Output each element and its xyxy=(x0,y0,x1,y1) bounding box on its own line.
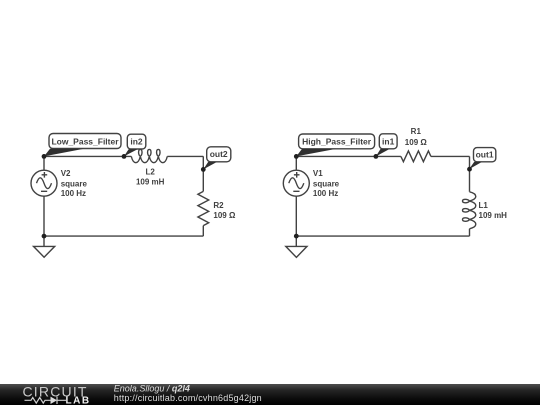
svg-text:V1: V1 xyxy=(313,169,323,178)
svg-text:Low_Pass_Filter: Low_Pass_Filter xyxy=(51,136,119,146)
svg-text:L1: L1 xyxy=(479,201,489,210)
svg-text:R1: R1 xyxy=(411,127,422,136)
svg-text:in1: in1 xyxy=(382,137,395,147)
svg-text:L2: L2 xyxy=(146,168,156,177)
svg-text:square: square xyxy=(61,179,88,188)
svg-text:LAB: LAB xyxy=(66,395,91,405)
svg-text:100 Hz: 100 Hz xyxy=(313,189,338,198)
svg-text:109 Ω: 109 Ω xyxy=(213,211,236,220)
svg-text:109 Ω: 109 Ω xyxy=(405,138,428,147)
svg-text:R2: R2 xyxy=(213,201,224,210)
svg-text:in2: in2 xyxy=(130,137,143,147)
svg-text:out1: out1 xyxy=(476,150,494,160)
svg-text:http://circuitlab.com/cvhn6d5g: http://circuitlab.com/cvhn6d5g42jgn xyxy=(114,393,262,403)
svg-text:out2: out2 xyxy=(210,149,228,159)
svg-text:109 mH: 109 mH xyxy=(479,211,508,220)
svg-text:square: square xyxy=(313,179,340,188)
svg-text:V2: V2 xyxy=(61,169,71,178)
svg-text:High_Pass_Filter: High_Pass_Filter xyxy=(302,137,372,147)
svg-text:109 mH: 109 mH xyxy=(136,178,165,187)
svg-text:100 Hz: 100 Hz xyxy=(61,189,86,198)
